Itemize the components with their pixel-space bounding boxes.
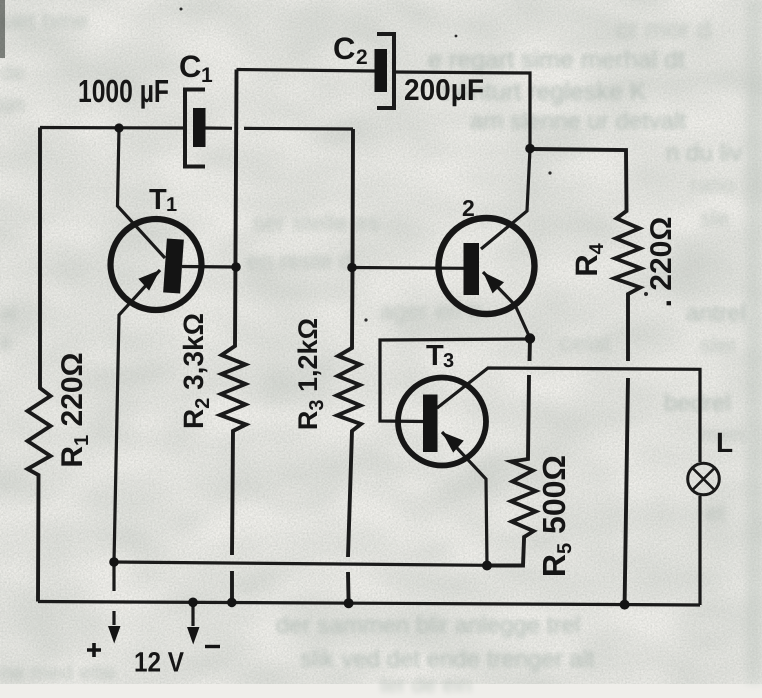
svg-text:C: C [333,31,355,66]
svg-text:R5 500Ω: R5 500Ω [536,455,576,577]
svg-text:R2 3,3kΩ: R2 3,3kΩ [178,313,214,429]
svg-text:. 220Ω: . 220Ω [645,217,678,308]
svg-text:3: 3 [443,350,454,372]
svg-text:1000 µF: 1000 µF [78,73,169,109]
svg-text:R1 220Ω: R1 220Ω [56,352,93,467]
svg-text:T: T [426,340,444,372]
svg-text:2: 2 [462,195,475,221]
svg-text:12 V: 12 V [134,647,184,678]
svg-text:R3 1,2kΩ: R3 1,2kΩ [293,318,328,430]
svg-text:2: 2 [356,46,368,69]
svg-text:L: L [716,427,733,458]
svg-text:1: 1 [201,64,213,87]
svg-text:200µF: 200µF [404,74,484,107]
svg-text:C: C [179,49,201,84]
svg-text:T: T [149,184,167,216]
svg-text:1: 1 [166,194,177,216]
